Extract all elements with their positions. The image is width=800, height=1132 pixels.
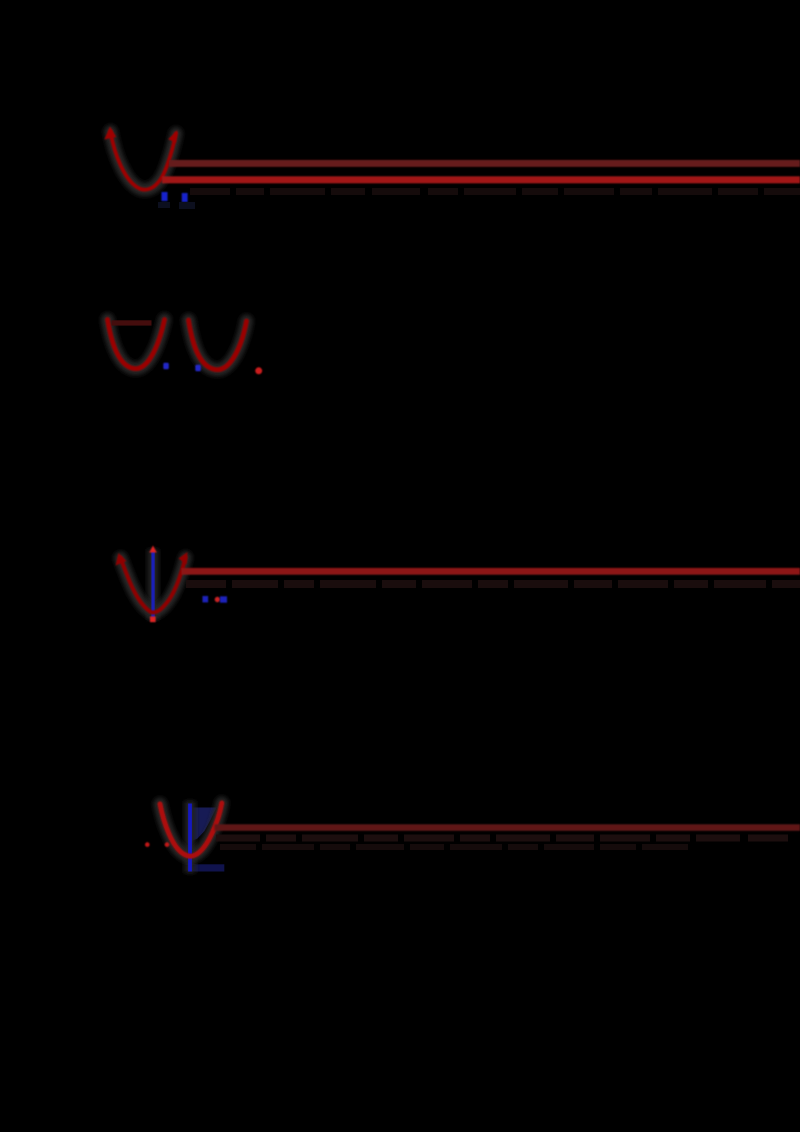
figure 2 blue dot 2 xyxy=(195,365,201,372)
figure 3 bottom red square xyxy=(150,617,156,623)
figure 3 left arrowhead xyxy=(116,553,127,566)
figure 1 left arrowhead xyxy=(104,127,116,140)
figure 2 top bar xyxy=(112,320,152,325)
figure 4 horizontal line D xyxy=(215,824,800,831)
figure 1 horizontal line A1 xyxy=(169,160,800,167)
figure 3 right arrowhead xyxy=(179,552,188,565)
figure 2 parabola 2 xyxy=(189,320,247,370)
figure 3 parabola halo xyxy=(121,558,186,613)
figure 3 text blue b xyxy=(220,596,227,602)
figure 4 parabola curve xyxy=(160,803,222,856)
figure 4 navy bottom strip xyxy=(188,864,225,871)
figure 1 right arrowhead xyxy=(168,130,177,143)
figure 1 blue mark 2 xyxy=(182,193,188,202)
faint text row 2 under line D xyxy=(220,844,688,850)
figure 2 parabola 1 halo xyxy=(108,320,165,369)
figure 1 parabola curve xyxy=(111,132,177,190)
figure 3 horizontal line C xyxy=(182,568,800,575)
figure 4 red dot 1 xyxy=(145,842,150,847)
figure 1 blue mark 1 xyxy=(162,192,168,201)
figure 4 red dot 2 xyxy=(165,842,170,847)
figure 3 blue vertical line xyxy=(151,552,154,619)
faint text row under line C xyxy=(186,580,800,588)
figure 4 navy shaded region xyxy=(192,808,217,842)
figure 3 text blue x xyxy=(203,596,209,602)
figure 1 parabola halo xyxy=(111,132,177,190)
figure 2 blue dot 1 xyxy=(163,363,169,370)
figure 3 top red arrow xyxy=(149,546,156,553)
faint text row under line D xyxy=(216,835,788,842)
figure 4 blue vertical line xyxy=(188,804,192,872)
figure 3 text red 0 xyxy=(215,597,220,602)
figure 3 parabola curve xyxy=(121,558,186,613)
figure 2 red dot xyxy=(255,367,262,374)
figure 1 dark blob under blue mark 1 xyxy=(158,202,170,208)
figure 4 blue line halo xyxy=(185,801,196,873)
faint text row under line A2 xyxy=(190,188,800,195)
figure 2 parabola 1 xyxy=(108,320,165,369)
figure 1 dark blob under blue mark 2 xyxy=(179,202,195,209)
figure 2 parabola 2 halo xyxy=(189,320,247,370)
figure 1 horizontal line A2 xyxy=(162,176,800,183)
figure 3 blue line halo xyxy=(148,549,159,620)
figure 4 parabola halo xyxy=(160,803,222,856)
